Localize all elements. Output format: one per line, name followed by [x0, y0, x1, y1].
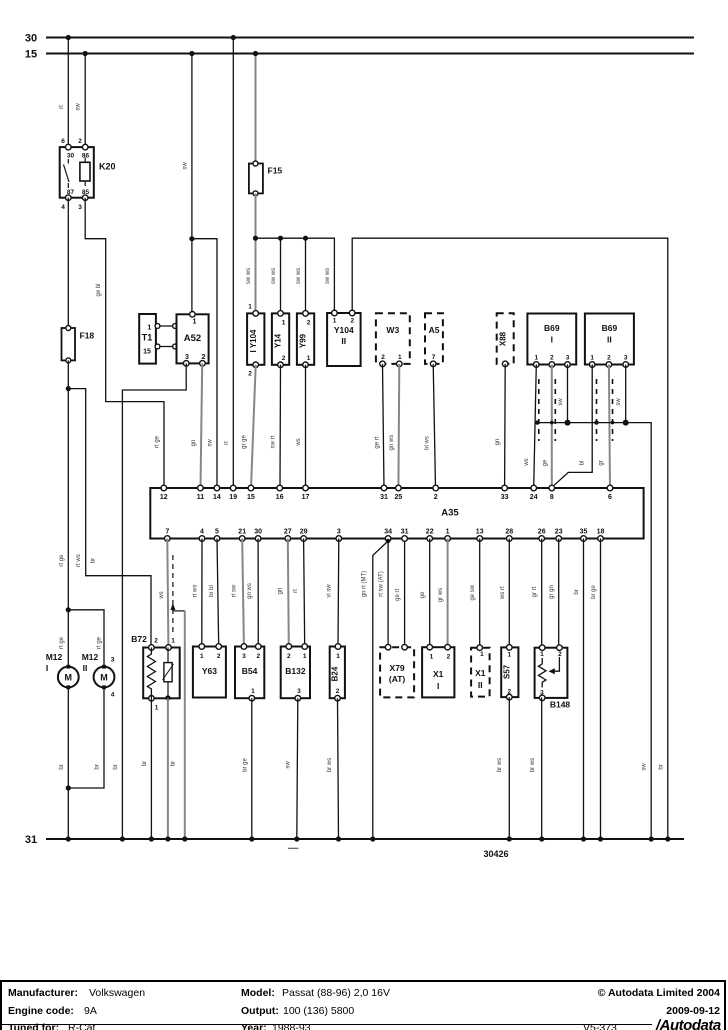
svg-text:M12: M12 [82, 652, 99, 662]
svg-text:B24: B24 [331, 666, 340, 681]
svg-text:Y104: Y104 [334, 325, 354, 335]
connector X1 I [422, 644, 454, 697]
wire sw: B132 pin 3 to bus 31 [297, 698, 298, 839]
svg-text:23: 23 [555, 529, 563, 536]
svg-text:br bl: br bl [209, 585, 215, 597]
node rt ge branch 2 [66, 607, 71, 612]
wire sw: Y104 II pin 2 loop to right side down to bus 31 [352, 238, 668, 839]
svg-text:13: 13 [476, 529, 484, 536]
svg-text:4: 4 [200, 529, 204, 536]
svg-text:II: II [478, 680, 483, 690]
svg-text:rt sw: rt sw [231, 584, 237, 597]
relay K20 [60, 138, 116, 211]
node bus31/B54 [249, 836, 254, 841]
svg-text:31: 31 [401, 529, 409, 536]
wire ws: B69 I pin 1 to A35 pin 24 [534, 365, 537, 489]
svg-text:rt ge: rt ge [59, 554, 65, 567]
interconnect T1-A52 [155, 324, 177, 349]
svg-text:rt ge: rt ge [59, 636, 65, 649]
svg-text:1: 1 [480, 651, 484, 658]
A35 pin 30 [255, 536, 261, 542]
wire sw ws to Y14 pin 1 [280, 238, 282, 313]
A35 pin 1 [445, 536, 451, 542]
valve Y63 [193, 644, 226, 698]
switch S57 [501, 645, 518, 700]
A35 pin 27 [285, 536, 291, 542]
svg-text:sw: sw [182, 162, 188, 170]
A35 pin 16 [277, 485, 283, 491]
svg-text:W3: W3 [386, 325, 399, 335]
connector X79 (AT) [380, 644, 414, 697]
wire rt ge: F18 down to motor M12 I [67, 360, 69, 666]
svg-text:17: 17 [302, 494, 310, 501]
svg-text:br ge: br ge [242, 758, 248, 772]
svg-text:Y14: Y14 [274, 333, 283, 348]
A35 pin 8 [549, 485, 555, 491]
wire br ws: B148 pin 3 to bus 31 [541, 698, 543, 840]
wire br: shield drain to bus 31 [184, 611, 186, 839]
node bus31/sw link [649, 836, 654, 841]
svg-text:X1: X1 [433, 669, 444, 679]
wire gr ge: Y104 I pin 2 to A35 pin 15 [251, 365, 256, 488]
sensor B69 II [585, 314, 634, 368]
valve Y104 I [247, 304, 264, 378]
control unit A35 [150, 488, 643, 539]
svg-text:M: M [65, 673, 73, 683]
svg-text:rt ge: rt ge [155, 435, 161, 448]
svg-text:3: 3 [624, 355, 628, 362]
sensor W3 [376, 313, 410, 367]
node B72 internal ground [165, 695, 170, 700]
svg-text:4: 4 [61, 204, 65, 211]
svg-text:34: 34 [384, 529, 392, 536]
potentiometer B148 [535, 645, 571, 710]
svg-text:rt ws: rt ws [76, 554, 82, 567]
svg-text:15: 15 [25, 49, 37, 61]
wire rt: bus 30 to K20 pin 6 [67, 38, 69, 148]
sensor B72 [131, 634, 179, 712]
valve Y14 [272, 311, 289, 368]
A35 pin 7 [165, 536, 171, 542]
wire: K20 pin 4 to fuse F18 [67, 198, 69, 328]
svg-text:sw: sw [285, 761, 291, 769]
wire gr ws: A35 pin 1 to X1 I pin 2 [447, 539, 449, 648]
svg-text:B148: B148 [550, 700, 571, 710]
wire br ge: A35 pin 18 to bus 31 [600, 539, 602, 840]
wire br: M12 II pin 4 to ground join [68, 687, 104, 788]
dashed variant wire B69 II pin 1 [596, 379, 598, 441]
svg-text:B54: B54 [242, 666, 258, 676]
bus 31 rail (ground) [46, 838, 684, 840]
svg-text:gn: gn [277, 588, 283, 595]
A35 pin 6 [607, 485, 613, 491]
svg-text:sw: sw [76, 103, 82, 111]
node M12 grounds join [66, 785, 71, 790]
svg-text:4: 4 [111, 692, 115, 699]
node bus31/right wire [665, 836, 670, 841]
node bus31/B132 [294, 836, 299, 841]
svg-text:X79: X79 [390, 663, 405, 673]
wire gn: A35 pin 27 to B132 pin 2 [288, 539, 289, 647]
wire sw: bus 15 to K20 pin 2 [84, 54, 86, 148]
svg-text:2: 2 [350, 318, 354, 325]
svg-text:I: I [437, 681, 439, 691]
node bus15/K20 [83, 51, 88, 56]
svg-text:19: 19 [229, 494, 237, 501]
svg-text:sw ws: sw ws [296, 268, 302, 284]
svg-text:1: 1 [336, 653, 340, 660]
svg-text:ws rt: ws rt [500, 586, 506, 600]
svg-text:br: br [59, 764, 65, 769]
node rt ge branch [66, 386, 71, 391]
A35 pin 15 [248, 485, 254, 491]
node link/B69I-3 [565, 420, 571, 426]
A35 pin 2 [433, 485, 439, 491]
A35 pin 13 [477, 536, 483, 542]
svg-text:A5: A5 [429, 325, 440, 335]
svg-text:br: br [171, 761, 177, 766]
svg-text:25: 25 [395, 494, 403, 501]
A35 pin 5 [214, 536, 220, 542]
svg-text:X1: X1 [475, 668, 486, 678]
A35 pin 24 [531, 485, 537, 491]
svg-text:3: 3 [566, 355, 570, 362]
A35 pin 3 [336, 536, 342, 542]
svg-text:rt sw (AT): rt sw (AT) [379, 571, 385, 597]
node A35 pin 8 junction [549, 485, 554, 490]
A35 pin 29 [301, 536, 307, 542]
wire gn ws: A35 pin 30 to B54 pin 2 [257, 539, 259, 647]
svg-text:ws: ws [296, 438, 302, 446]
sensor B24 [330, 644, 345, 701]
svg-text:30: 30 [67, 153, 75, 160]
A35 pin 11 [198, 485, 204, 491]
svg-text:31: 31 [380, 494, 388, 501]
svg-text:26: 26 [538, 529, 546, 536]
valve Y104 II [327, 310, 361, 366]
svg-text:I Y104: I Y104 [249, 329, 258, 353]
svg-text:II: II [607, 335, 612, 345]
wire vi sw: A35 pin 3 to B24 pin 1 [337, 539, 340, 647]
sensor B69 I [527, 314, 576, 368]
svg-text:ge rt: ge rt [395, 588, 401, 600]
svg-text:br: br [91, 558, 97, 563]
wire rt ws: A35 pin 4 to Y63 pin 1 [201, 539, 203, 647]
svg-text:3: 3 [337, 529, 341, 536]
svg-text:ge: ge [542, 459, 548, 466]
svg-text:ge bl: ge bl [96, 283, 102, 296]
wire sw: B69 I pin 3 to ground link [567, 365, 569, 423]
svg-text:rt: rt [224, 441, 230, 445]
wire br ge: B54 pin 1 to bus 31 [251, 698, 253, 839]
wire ge: A35 pin 22 to X1 I pin 1 [429, 539, 431, 648]
wire: B72 element to bus 31 [167, 698, 169, 839]
svg-text:vi sw: vi sw [327, 584, 333, 598]
connector T1 [139, 314, 156, 364]
svg-text:15: 15 [247, 494, 255, 501]
svg-text:2: 2 [154, 638, 158, 645]
svg-text:3: 3 [242, 653, 246, 660]
svg-text:ge sw: ge sw [470, 584, 476, 600]
svg-text:2: 2 [607, 355, 611, 362]
A35 pin 22 [427, 536, 433, 542]
motor M12 II [82, 652, 115, 699]
A35 pin 21 [239, 536, 245, 542]
wire rt sw (AT): A35 pin 34 to X79 [387, 541, 389, 646]
node bus31/B24 [336, 836, 341, 841]
valve Y99 [297, 311, 314, 368]
node link/B69II-3 [623, 420, 629, 426]
wire rt sw: A35 pin 21 to B54 pin 3 [242, 539, 244, 647]
node bus30/K20 [66, 35, 71, 40]
svg-text:ge: ge [420, 591, 426, 598]
svg-text:gn: gn [191, 440, 197, 447]
wire sw: bus 15 to A52 pin 1 [191, 54, 193, 315]
wire sw ws distribution rail [256, 238, 335, 313]
svg-text:30: 30 [25, 33, 37, 45]
svg-text:87: 87 [67, 189, 75, 196]
A35 pin 26 [539, 536, 545, 542]
svg-text:sw ws: sw ws [325, 268, 331, 284]
connector X88 [497, 313, 514, 367]
fuse F15 [249, 161, 283, 196]
sensor B132 [281, 644, 310, 701]
bus 15 rail [46, 53, 694, 55]
svg-text:2: 2 [558, 651, 562, 658]
motor M12 I [46, 652, 79, 689]
svg-text:35: 35 [580, 529, 588, 536]
A35 pin 4 [199, 536, 205, 542]
svg-text:gn: gn [495, 439, 501, 446]
node bus31/A52 [120, 836, 125, 841]
wire sw branch to A35 pin 14 [192, 239, 217, 488]
shield wire at B72 [172, 555, 174, 633]
A35 pin 25 [396, 485, 402, 491]
wire ws rt: A35 pin 28 to S57 pin 1 [508, 539, 510, 648]
A35 pin 14 [214, 485, 220, 491]
wire br bl: A35 pin 5 to Y63 pin 2 [217, 539, 219, 647]
svg-text:1: 1 [251, 688, 255, 695]
wire gr gn: A35 pin 23 to B148 pin 2 [558, 539, 560, 648]
svg-text:1: 1 [282, 320, 286, 327]
dashed variant wire B69 I pin 1 [538, 379, 540, 441]
svg-text:br ge: br ge [591, 585, 597, 599]
node link/B69II-1 [594, 420, 598, 424]
svg-text:30426: 30426 [483, 849, 508, 859]
svg-text:33: 33 [501, 494, 509, 501]
wire br: B72 pin 1 to bus 31 [150, 698, 152, 839]
svg-text:3: 3 [297, 688, 301, 695]
svg-text:sw ws: sw ws [271, 268, 277, 284]
svg-text:sw rt: sw rt [271, 435, 277, 448]
svg-text:B132: B132 [285, 666, 306, 676]
A35 pin 18 [598, 536, 604, 542]
svg-text:gr: gr [599, 460, 605, 465]
svg-text:1: 1 [507, 652, 511, 659]
wire gn: X88 to A35 pin 33 [504, 364, 507, 488]
svg-text:11: 11 [197, 494, 205, 501]
node link/B69II-2 [611, 421, 615, 425]
node bus30/rt [231, 35, 236, 40]
svg-text:1: 1 [333, 318, 337, 325]
svg-text:2: 2 [78, 138, 82, 145]
dash mark under bus 31 [288, 847, 299, 849]
svg-text:7: 7 [432, 354, 436, 361]
svg-text:M12: M12 [46, 652, 63, 662]
svg-text:br: br [95, 764, 101, 769]
wire ge rt: W3 pin 2 to A35 pin 31 [383, 364, 385, 488]
wire ws: Y99 pin 1 to A35 pin 17 [305, 365, 307, 488]
A35 pin 28 [507, 536, 513, 542]
svg-text:1: 1 [303, 653, 307, 660]
node A35 pin 34 [386, 539, 390, 543]
svg-text:6: 6 [608, 494, 612, 501]
svg-text:15: 15 [143, 349, 151, 356]
node bus31/B72 element [165, 836, 170, 841]
svg-text:29: 29 [300, 529, 308, 536]
svg-text:II: II [341, 336, 346, 346]
A35 pin 34 [385, 536, 391, 542]
svg-text:3: 3 [540, 690, 544, 697]
wire gr rt: A35 pin 26 to B148 pin 1 [541, 539, 543, 648]
bus 30 rail [46, 37, 694, 39]
svg-text:12: 12 [160, 494, 168, 501]
svg-text:sw ws: sw ws [246, 268, 252, 284]
wire sw ws: F15 to Y104 I pin 1 [255, 193, 257, 313]
svg-text:br: br [142, 761, 148, 766]
svg-text:X88: X88 [498, 331, 507, 346]
node bus31/B148 [539, 836, 544, 841]
node Y99 feed [303, 236, 308, 241]
svg-text:2: 2 [202, 354, 206, 361]
svg-text:gr gn: gr gn [549, 585, 555, 599]
svg-text:1: 1 [248, 304, 252, 311]
wire br: A52 pin 3 to bus 31 [122, 363, 186, 839]
svg-text:rt: rt [293, 589, 299, 593]
svg-text:rt ge: rt ge [97, 636, 103, 649]
A35 pin 17 [303, 485, 309, 491]
node link/B69I-1 [535, 420, 539, 424]
svg-text:85: 85 [82, 189, 90, 196]
wire gr: B69 II pin 2 to A35 pin 6 [609, 365, 610, 489]
svg-text:br ws: br ws [497, 758, 503, 772]
node bus31/pin18 [598, 836, 603, 841]
svg-text:br: br [113, 764, 119, 769]
svg-text:18: 18 [597, 529, 605, 536]
wire sw: ground link rail to bus 31 [537, 423, 651, 839]
svg-text:S57: S57 [503, 664, 512, 679]
wire gn: A52 pin 2 to A35 pin 11 [201, 363, 203, 488]
svg-text:T1: T1 [142, 333, 153, 343]
svg-text:Y63: Y63 [202, 666, 217, 676]
wire rt ge branch to M12 II pin 3 [68, 610, 104, 667]
svg-text:2: 2 [381, 354, 385, 361]
A35 pin 31 [402, 536, 408, 542]
svg-text:ws: ws [159, 591, 165, 599]
svg-text:sw: sw [642, 763, 648, 771]
svg-text:M: M [100, 673, 108, 683]
wire br ws: B24 pin 2 to bus 31 [338, 698, 339, 839]
wire bl ws: A5 pin 7 to A35 pin 2 [433, 364, 435, 488]
wire ge bl / rt ge: K20 pin 3 to A35 pin 12 [85, 198, 164, 488]
svg-text:A52: A52 [184, 333, 201, 344]
svg-text:14: 14 [213, 494, 221, 501]
svg-text:B69: B69 [602, 323, 618, 333]
svg-text:5: 5 [215, 529, 219, 536]
svg-text:B72: B72 [131, 634, 147, 644]
wire ws: A35 pin 7 to B72 pin 1 [167, 539, 168, 648]
node bus15/F15 [253, 51, 258, 56]
A35 pin 19 [230, 485, 236, 491]
svg-text:1: 1 [590, 355, 594, 362]
wire rt: A35 pin 29 to B132 pin 1 [304, 539, 305, 647]
wire: bus 15 to fuse F15 [255, 54, 257, 164]
svg-text:1: 1 [307, 355, 311, 362]
wire gn rt (MT): A35 pin 34 to bus 31 [373, 541, 388, 839]
wire bl: B69 II pin 1 to A35 pin 8 [552, 365, 592, 488]
wire ge rt: A35 pin 31 to X79 [404, 541, 406, 646]
svg-text:ws: ws [524, 458, 530, 466]
wire br ws: S57 pin 2 to bus 31 [508, 697, 510, 839]
svg-text:3: 3 [78, 204, 82, 211]
svg-text:bl ws: bl ws [425, 436, 431, 450]
A35 pin 31 [381, 485, 387, 491]
svg-text:2: 2 [282, 355, 286, 362]
svg-text:bl: bl [580, 461, 586, 466]
wire br: M12 I to bus 31 [67, 687, 69, 839]
node sw branch [189, 236, 194, 241]
wire rt ws: branch to B72 pin 2 [68, 389, 151, 648]
svg-text:30: 30 [254, 529, 262, 536]
svg-text:1: 1 [200, 653, 204, 660]
wire br: A35 pin 35 to bus 31 [583, 539, 585, 840]
svg-text:2: 2 [447, 654, 451, 661]
svg-text:br: br [574, 589, 580, 594]
svg-text:II: II [83, 663, 88, 673]
node bus31/MT [370, 836, 375, 841]
svg-text:2: 2 [507, 689, 511, 696]
svg-text:F15: F15 [268, 166, 283, 176]
A35 pin 12 [161, 485, 167, 491]
svg-text:16: 16 [276, 494, 284, 501]
wire ge sw: A35 pin 13 to X1 II pin 1 [479, 539, 481, 648]
svg-text:(AT): (AT) [389, 674, 406, 684]
svg-text:K20: K20 [99, 162, 116, 172]
node bus31/M12 [66, 836, 71, 841]
wire sw rt: Y14 pin 2 to A35 pin 16 [279, 365, 282, 488]
svg-text:gn ws: gn ws [247, 583, 253, 599]
svg-text:br ws: br ws [530, 758, 536, 772]
svg-text:sw: sw [616, 398, 622, 406]
svg-text:1: 1 [193, 319, 197, 326]
node sw ws distribution [253, 236, 258, 241]
svg-text:Y99: Y99 [299, 333, 308, 348]
svg-text:2: 2 [256, 653, 260, 660]
svg-text:2: 2 [307, 320, 311, 327]
svg-text:ge rt: ge rt [375, 436, 381, 448]
A35 pin 35 [581, 536, 587, 542]
svg-text:1: 1 [398, 354, 402, 361]
node bus31/S57 [507, 836, 512, 841]
svg-text:22: 22 [426, 529, 434, 536]
svg-text:24: 24 [530, 494, 538, 501]
svg-text:sw: sw [208, 439, 214, 447]
svg-text:I: I [551, 335, 553, 345]
node bus31/shield [182, 836, 187, 841]
svg-text:1: 1 [446, 529, 450, 536]
svg-text:2: 2 [248, 371, 252, 378]
svg-text:2: 2 [434, 494, 438, 501]
